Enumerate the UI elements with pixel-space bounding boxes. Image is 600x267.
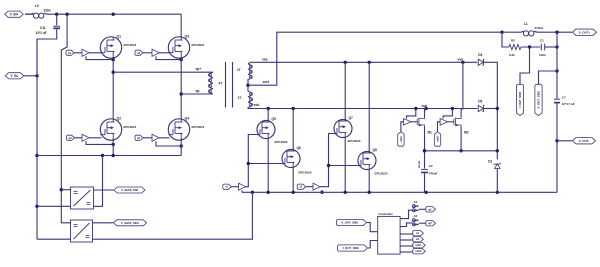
wire D1 anode to return bus [496,169,498,193]
wire s1 to buffer [231,186,238,188]
junction Q3 source [180,58,183,61]
junction return bus / Q6 [292,191,295,194]
wire g1 to buffer [74,52,82,54]
transformer secondary winding B 1T [238,91,253,107]
wire s1 buffer reference stub [241,190,243,192]
port V_OUT_SNS [535,84,542,115]
isolator A2 [412,214,419,226]
wire bridge return rail [37,155,181,157]
wire to V_OUT- [557,140,572,142]
wire top rail V_IN+ [47,13,181,15]
wire Q3 source to Q4 drain [180,57,182,120]
svg-text:g1: g1 [68,51,72,55]
wire I_OUT_SNS [520,47,530,84]
isolator A1 [412,200,419,212]
wire Q8 drain [368,62,370,151]
junction vsb / Q6 drain [292,107,295,110]
port I_OUT_SNS input [338,245,368,251]
transformer T1 primary winding 4T [208,72,222,94]
wire dcdc2 out- to secondary return [93,192,253,239]
wire vsct to L1 [502,31,521,33]
wire Q1 driver source reference [86,56,113,59]
wire C2 bottom [424,174,426,193]
port I_OUT_SNS [516,84,523,115]
wire M2 drain to vsa [461,62,463,117]
svg-text:12*1 uF: 12*1 uF [36,31,47,35]
svg-text:A1: A1 [414,200,418,204]
svg-text:EPC2021: EPC2021 [124,43,137,47]
svg-text:EPC2021: EPC2021 [192,125,205,129]
inductor L1 470nH [521,22,543,36]
transistor M1 [417,117,432,134]
wire buffer to Q4 gate [159,137,170,139]
svg-text:A2: A2 [414,214,418,218]
svg-text:vsb: vsb [254,103,260,107]
svg-text:g1: g1 [428,207,432,211]
wire buffer to Q3 gate [159,52,170,54]
svg-text:snb2: snb2 [436,135,439,141]
svg-text:M2: M2 [464,130,469,134]
svg-text:5.2k: 5.2k [509,53,515,57]
wire V_OUT_SNS [539,71,558,84]
svg-text:Q7: Q7 [349,116,354,120]
transistor Q8 EPC2020 [358,148,388,175]
wire V_IN+ bias feed vertical [61,14,70,223]
transformer core [226,62,233,108]
junction s1 gate net [247,162,250,165]
wire Q4 driver source reference [156,141,181,146]
junction vsct / damping branch [500,31,503,34]
wire Q3 drain [180,14,182,38]
wire snb2 to M2 buffer [438,122,441,132]
svg-text:100n: 100n [539,53,546,57]
port g1 (Q4 gate) [135,135,143,140]
wire C11 bottom to V_IN- rail [37,29,57,76]
junction return bus / C2 [424,191,427,194]
junction return bus / bias return [251,191,254,194]
resistor R2 5.2k [509,39,521,57]
wire controller pin 4 [400,239,413,241]
junction center tap [246,84,249,87]
wire buffer to Q2 gate [89,137,102,139]
gate driver buffer for Q3 [152,49,159,56]
svg-text:R2: R2 [511,39,515,43]
capacitor C1 100n [539,39,546,57]
wire controller pin 6 [400,251,413,253]
port V_BIAS_SEC [114,220,147,226]
wire M2 buffer supply [443,109,452,119]
junction vsb / M1 drain [424,107,427,110]
wire output return bus [242,191,557,193]
wire node vp+ to transformer [113,67,213,72]
wire L1 to V_OUT+ [537,31,572,33]
wire damping branch left [502,32,509,47]
svg-text:I_OUT_SNS: I_OUT_SNS [518,92,522,108]
svg-text:M1: M1 [428,130,433,134]
svg-text:12*4.7 uF: 12*4.7 uF [562,102,575,106]
diode D5 [478,100,484,112]
transistor M2 [454,117,469,134]
wire R2 to C1 [521,46,540,48]
junction return bus / Q7 [344,191,347,194]
dcdc converter module (V_BIAS_SEC) [71,220,93,242]
svg-text:L1: L1 [524,22,528,26]
wire Q1 source to Q2 drain [112,57,114,120]
capacitor C2 470nF [421,164,437,176]
wire dcdc1 in+ [61,189,70,191]
wire C11 top [56,14,58,25]
junction vsa / Q8 drain [368,61,371,64]
svg-text:s2: s2 [416,237,420,241]
svg-text:V_BIAS_PRI: V_BIAS_PRI [121,188,138,192]
junction snubber rail / C2 [423,149,426,152]
wire controller pin 5 [400,245,413,247]
junction vsb / Q5 drain [267,107,270,110]
wire controller pin 3 [400,233,413,235]
wire dcdc2 out+ [93,222,114,224]
junction top rail / bias feed [65,13,68,16]
junction vsb / M1 buffer supply [414,107,417,110]
wire M2 buffer to gate [448,121,454,123]
wire s2 buffer to Q7 gate [320,134,334,187]
svg-text:L0: L0 [35,4,39,8]
wire I_OUT_SNS to controller [368,241,378,249]
dcdc converter module (V_BIAS_PRI) [71,187,94,209]
port g2 (Q3 gate) [135,50,143,55]
gate driver buffer s2 (Q7 Q8) [313,183,320,190]
wire Q5 source to output return [267,138,269,192]
zener diode D1 [488,159,501,168]
wire M1 drain to vsb [425,109,427,118]
junction top rail / Q1 drain [112,13,115,16]
junction vsa / M2 drain [461,61,464,64]
wire Q3 driver source reference [156,56,181,59]
wire dcdc2 in- [37,238,71,240]
wire M2 source to snubber rail [460,126,462,151]
wire Q8 source to output return [368,169,370,192]
port snb2 [434,132,440,147]
wire secondary center tap stub [247,79,249,91]
svg-text:1T: 1T [237,68,241,72]
wire s2 to Q8 gate [329,165,359,167]
port snb1 output [413,243,426,248]
svg-text:vp+: vp+ [196,67,202,71]
gate driver buffer for Q4 [152,134,159,141]
wire s1 to Q6 gate [248,163,282,165]
transistor Q2 EPC2021 [100,116,136,140]
svg-text:V_IN-: V_IN- [11,74,19,78]
junction bias feed / dcdc1 in+ [60,188,63,191]
junction snubber feed / snubber rail [496,149,499,152]
junction snubber feed / D5 [496,107,499,110]
svg-text:Q4: Q4 [185,116,190,120]
transistor Q6 EPC2020 [282,146,312,175]
transistor Q5 EPC2020 [257,117,288,144]
wire V_OUT_SNS to controller [367,223,378,232]
junction V_OUT_SNS tap [555,69,558,72]
junction vsa / Q7 drain [344,61,347,64]
wire net vsct center tap to output filter [248,32,502,85]
wire A2 to g2 [419,222,426,224]
diode D4 [478,53,484,65]
svg-text:Q6: Q6 [297,146,302,150]
port s1 [223,184,232,189]
svg-text:snb1: snb1 [415,243,422,247]
wire net vsb [248,103,477,108]
junction V_IN- tap [35,74,38,77]
transistor Q3 EPC2021 [168,34,204,58]
svg-text:V_OUT+: V_OUT+ [579,30,591,34]
transistor Q7 EPC2020 [334,116,361,143]
wire M1 buffer supply [407,109,416,119]
junction output node / damping [555,45,558,48]
svg-text:V_BIAS_SEC: V_BIAS_SEC [121,221,140,225]
port g1 output [426,207,436,212]
wire A1 to g1 [419,208,426,210]
junction vsb / M2 buffer supply [451,107,454,110]
svg-text:vsa: vsa [262,57,268,61]
wire V_IN- to vertical [24,75,37,77]
wire dcdc1 in- [37,205,71,207]
wire Q5 drain [267,109,269,122]
svg-text:230n: 230n [44,9,51,13]
controller U2 [378,212,400,254]
svg-text:EPC2021: EPC2021 [124,125,137,129]
wire D5 cathode to snubber feed [483,108,497,110]
junction V_IN- / dcdc1 in- [35,205,38,208]
port snb2 output [413,249,426,254]
junction Q1 source [112,58,115,61]
svg-text:470nF: 470nF [429,172,438,176]
wire D4 cathode to snubber feed [483,62,497,159]
junction Q2 source [112,143,115,146]
svg-text:1T: 1T [238,96,242,100]
svg-text:EPC2020: EPC2020 [375,171,388,175]
svg-text:Q8: Q8 [373,148,378,152]
wire s2 to buffer [306,186,313,188]
wire dcdc1 out+ [94,189,115,191]
junction return rail / Q2 [112,154,115,157]
port V_OUT+ [573,29,597,35]
svg-text:D5: D5 [478,100,482,104]
wire Q6 source to output return [292,167,294,192]
svg-text:vp-: vp- [196,89,201,93]
port g2 output [426,221,436,226]
gate driver buffer s1 (Q5 Q6) [239,183,246,190]
svg-text:I_OUT_SNS: I_OUT_SNS [343,246,359,250]
svg-text:4T: 4T [219,82,223,86]
port s2 [297,184,306,189]
junction M2 source / snubber rail [459,149,462,152]
svg-text:Q1: Q1 [117,34,122,38]
svg-text:vb+sb: vb+sb [418,160,421,168]
transistor Q1 EPC2021 [100,34,136,58]
svg-text:Q5: Q5 [272,117,277,121]
svg-text:C1: C1 [540,39,544,43]
transformer secondary winding A 1T [237,64,252,80]
svg-text:s1: s1 [225,185,229,189]
svg-text:EPC2021: EPC2021 [192,43,205,47]
svg-text:snb1: snb1 [400,135,403,141]
svg-text:snb2: snb2 [415,249,422,253]
junction node vp- [180,92,183,95]
junction return bus / D1 [496,191,499,194]
svg-text:C7: C7 [562,96,566,100]
wire left V_IN- vertical [36,39,38,239]
port V_IN- [5,73,24,79]
wire g2 to buffer [143,52,152,54]
svg-text:EPC2020: EPC2020 [348,139,361,143]
wire s1 buffer to Q5 gate [246,135,258,187]
svg-text:g1: g1 [137,136,141,140]
port V_IN+ [5,11,24,17]
capacitor C11 12*1uF [36,26,61,35]
svg-text:V_OUT-: V_OUT- [579,139,590,143]
wire Q4 source to return rail [180,139,182,156]
svg-text:g2: g2 [137,51,141,55]
wire s2 buffer reference stub [321,190,323,192]
wire controller pin 2 to A2 [400,223,412,227]
wire buffer to Q1 gate [89,52,102,54]
inductor L0 [25,4,51,18]
wire net vsa [248,57,477,64]
wire C2 top [424,151,426,169]
port V_BIAS_PRI [114,187,145,193]
wire g1 to buffer [143,137,152,139]
wire Q2 driver source reference [86,141,113,144]
wire Q7 drain [344,62,346,119]
svg-text:vsct: vsct [263,80,270,84]
port snb1 [398,132,404,147]
wire node vp- to transformer [181,89,213,94]
wire M1 buffer to gate [411,121,417,123]
wire C1 to output node [545,46,557,48]
wire M1 source to snubber rail [424,126,426,151]
junction output return / s2 buffer [320,191,323,194]
port g2 (Q2 gate) [67,135,75,140]
junction node vp+ [112,71,115,74]
gate driver buffer for Q2 [82,134,89,141]
junction V_OUT- tap [555,139,558,142]
wire V_IN+ to L0 [25,13,33,15]
svg-text:s2: s2 [299,185,303,189]
wire Q2 source to return rail [112,139,114,156]
junction M1 source / snubber rail [423,149,426,152]
junction I_OUT_SNS tap [528,45,531,48]
wire snubber rail [418,151,497,168]
svg-text:V_OUT_SNS: V_OUT_SNS [537,91,541,108]
junction return bus / Q5 [267,191,270,194]
port s1 output [413,231,424,236]
junction Q4 source [180,144,183,147]
wire Q7 source to output return [344,137,346,192]
port V_OUT- [573,138,596,144]
junction V_OUT+ node [555,31,558,34]
svg-text:Controller: Controller [379,212,394,216]
port s2 output [413,237,424,242]
junction V_IN- / bridge return rail [35,154,38,157]
capacitor C7 12*4.7uF [554,96,575,106]
svg-text:V_OUT_SNS: V_OUT_SNS [341,221,358,225]
svg-text:s1: s1 [416,231,420,235]
svg-text:C2: C2 [429,164,433,168]
junction s2 gate net [327,164,330,167]
gate buffer for M2 [440,119,447,126]
wire controller pin 1 to A1 [400,210,412,218]
svg-text:g2: g2 [68,136,72,140]
junction top rail / C11 [55,13,58,16]
svg-text:EPC2020: EPC2020 [299,171,312,175]
port V_OUT_SNS input [337,219,367,225]
svg-text:V_IN+: V_IN+ [10,12,19,16]
gate buffer for M1 [404,119,411,126]
junction return rail / dcdc1 out- [101,154,104,157]
svg-text:D4: D4 [478,53,482,57]
wire snb1 to M1 buffer [401,122,404,132]
wire g2 to buffer [75,137,83,139]
svg-text:EPC2020: EPC2020 [275,140,288,144]
wire output node vertical [556,32,558,98]
svg-text:g2: g2 [428,221,432,225]
wire C7 bottom to return bus [556,103,558,193]
junction return bus / Q8 [368,191,371,194]
svg-text:Q3: Q3 [185,34,190,38]
gate driver buffer for Q1 [82,49,89,56]
svg-text:470nH: 470nH [535,26,544,30]
svg-text:Q2: Q2 [117,116,122,120]
wire dcdc1 out- to return rail [94,156,103,207]
svg-text:C11: C11 [40,26,46,30]
transistor Q4 EPC2021 [168,116,204,140]
svg-text:D1: D1 [488,159,492,163]
wire Q6 drain [292,109,294,151]
port g1 (Q1 gate) [66,50,74,55]
